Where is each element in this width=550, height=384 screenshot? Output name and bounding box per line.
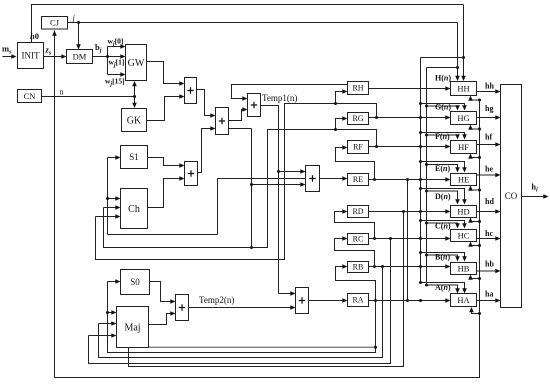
wire G net: RG out up-over to RH.in and down to Ch.in3 bbox=[96, 89, 379, 259]
wire j drop into HH top bbox=[455, 23, 460, 82]
svg-text:C(n): C(n) bbox=[435, 222, 451, 231]
svg-text:hh: hh bbox=[485, 81, 494, 90]
register RB bbox=[348, 262, 369, 273]
wire A7 out to RA bbox=[309, 298, 348, 303]
svg-text:RC: RC bbox=[353, 235, 364, 244]
adder A2 (+n) bbox=[216, 108, 229, 135]
svg-text:RA: RA bbox=[352, 296, 363, 305]
svg-text:A(n): A(n) bbox=[435, 283, 451, 292]
register RG bbox=[348, 113, 369, 125]
svg-text:B(n): B(n) bbox=[435, 253, 450, 262]
wire ladder RA to RB.in bbox=[336, 264, 378, 302]
wire HE out to CO (he) bbox=[477, 173, 501, 178]
wire Temp2 line A6 to A7 bbox=[189, 305, 296, 310]
svg-text:HH: HH bbox=[457, 83, 469, 93]
adder A6 (S0+Maj) bbox=[176, 295, 189, 321]
svg-text:H(n): H(n) bbox=[435, 74, 451, 83]
register RC bbox=[348, 234, 369, 245]
svg-text:RE: RE bbox=[353, 175, 363, 184]
wire zs INIT to DM bbox=[44, 54, 67, 59]
wire RD out to HD bbox=[369, 209, 451, 214]
svg-text:DM: DM bbox=[73, 51, 87, 61]
wire ladder RE to RF.in bbox=[336, 145, 377, 181]
svg-text:n: n bbox=[60, 88, 64, 97]
svg-text:CO: CO bbox=[505, 191, 518, 201]
wire A net: RA down to S0/Maj.in1 bbox=[106, 279, 376, 352]
wire vertical link RE row to RA row bbox=[406, 178, 409, 302]
adder A1 (GW+GK) bbox=[185, 78, 197, 104]
wire taps into HC top bbox=[419, 219, 467, 229]
wire feedback into HG bottom bbox=[468, 125, 481, 131]
wire RH left to A3 (H into Temp1) bbox=[232, 85, 348, 101]
wire Maj side line bbox=[149, 346, 378, 349]
register RH bbox=[348, 82, 369, 95]
register HC bbox=[451, 230, 477, 242]
wire ladder RB to RC.in bbox=[335, 236, 377, 268]
svg-text:hb: hb bbox=[485, 259, 494, 268]
wire link busB top bbox=[427, 67, 458, 69]
wire HA out to CO (ha) bbox=[477, 298, 501, 303]
wire C net: RC down to Maj.in3 bbox=[89, 239, 391, 364]
wire A4 out to A2 bbox=[198, 126, 216, 172]
svg-text:Maj: Maj bbox=[124, 322, 140, 333]
block CJ (round counter) bbox=[42, 17, 68, 30]
wire HH out to CO (hh) bbox=[477, 89, 501, 94]
adder A3 (Temp1 adder) bbox=[248, 94, 261, 117]
wire bj DM to GW bus bbox=[93, 44, 126, 77]
wire ladder RC to RD.in bbox=[335, 209, 377, 240]
register RE bbox=[348, 174, 369, 186]
wire GK out to A1 bbox=[147, 94, 185, 120]
register HG bbox=[451, 112, 477, 125]
svg-text:hc: hc bbox=[485, 229, 493, 238]
svg-text:F(n): F(n) bbox=[435, 132, 450, 141]
svg-text:E(n): E(n) bbox=[435, 164, 450, 173]
svg-text:S0: S0 bbox=[130, 277, 140, 287]
wire h0 drop into HH top bbox=[461, 5, 466, 82]
block S0 bbox=[121, 270, 150, 295]
register HD bbox=[451, 206, 477, 218]
svg-text:hd: hd bbox=[485, 197, 494, 206]
wire RF out to HF bbox=[369, 144, 451, 149]
wire Ch out to A4 bbox=[148, 176, 185, 207]
wire feedback into HD bottom bbox=[468, 218, 481, 224]
svg-text:Ch: Ch bbox=[128, 204, 140, 215]
wire A5 output line to RE and E-bus stub bbox=[218, 176, 348, 234]
svg-text:h0: h0 bbox=[30, 31, 39, 41]
wire CO output hi bbox=[522, 194, 549, 199]
svg-text:GK: GK bbox=[127, 115, 142, 126]
block S1 bbox=[121, 146, 148, 169]
svg-text:HE: HE bbox=[458, 174, 469, 184]
wire A2 right link down to A5.in2 bbox=[229, 129, 306, 250]
wire RC out to HC bbox=[369, 236, 451, 241]
svg-text:hf: hf bbox=[485, 132, 492, 141]
block GK (round constant) bbox=[122, 109, 147, 132]
block CN bbox=[18, 90, 42, 103]
svg-text:CN: CN bbox=[24, 91, 36, 101]
svg-text:RD: RD bbox=[352, 207, 363, 216]
wire taps into HA top bbox=[419, 281, 467, 294]
register RA bbox=[348, 294, 369, 307]
svg-text:Temp1(n): Temp1(n) bbox=[262, 93, 297, 103]
wire j drop into DM bbox=[76, 23, 81, 50]
wire Maj out to A6 bbox=[149, 311, 176, 324]
wire feedback into HC bottom bbox=[468, 242, 481, 248]
wire CJ bottom loop to HA/bottom bbox=[52, 31, 479, 378]
svg-text:CJ: CJ bbox=[50, 18, 60, 28]
wire taps into HD top bbox=[419, 187, 467, 205]
wire busB vertical bbox=[426, 68, 428, 286]
wire HD out to CO (hd) bbox=[477, 209, 501, 214]
wire RB out to HB bbox=[369, 264, 451, 269]
adder A5 (E adder) bbox=[306, 166, 320, 192]
svg-text:RH: RH bbox=[352, 84, 363, 93]
adder A7 (Temp1+Temp2) bbox=[296, 288, 309, 314]
wire RH out to HH bbox=[369, 86, 451, 91]
svg-text:ha: ha bbox=[485, 289, 493, 298]
wire HF out to CO (hf) bbox=[477, 142, 501, 147]
block CO (output combiner) bbox=[501, 85, 522, 308]
register HA bbox=[451, 294, 477, 307]
wire busA vertical bbox=[420, 58, 422, 283]
wire taps into HB top bbox=[419, 251, 467, 262]
register HH bbox=[451, 82, 477, 96]
wire taps into HF top bbox=[419, 131, 467, 140]
svg-text:hg: hg bbox=[485, 104, 493, 113]
wire feedback into HA bottom bbox=[469, 307, 481, 315]
svg-text:HG: HG bbox=[457, 113, 469, 123]
wire HC out to CO (hc) bbox=[477, 236, 501, 241]
wire S1 out to A4 bbox=[148, 158, 185, 168]
wire A2 out to A3 bbox=[229, 107, 248, 120]
wire S0 out to A6 bbox=[150, 282, 176, 304]
wire taps into HE top bbox=[419, 160, 467, 173]
wire feedback into HH bottom bbox=[468, 96, 481, 102]
wire B net: RB down to Maj.in2 bbox=[99, 267, 383, 358]
block GW (message schedule) bbox=[126, 45, 147, 81]
register RF bbox=[348, 141, 369, 154]
adder A4 (S1+Ch) bbox=[185, 162, 198, 186]
wire HG out to CO (hg) bbox=[477, 115, 501, 120]
wire A1 out to A2 bbox=[197, 90, 216, 118]
block Maj bbox=[117, 307, 149, 348]
svg-text:RG: RG bbox=[352, 114, 363, 123]
svg-text:INIT: INIT bbox=[22, 51, 40, 61]
svg-text:Temp2(n): Temp2(n) bbox=[199, 295, 234, 305]
svg-text:he: he bbox=[485, 165, 493, 174]
register HF bbox=[451, 141, 477, 154]
wire HB out to CO (hb) bbox=[477, 269, 501, 274]
wire n from CN to GW/GK bbox=[42, 81, 137, 108]
wire feedback into HE bottom bbox=[468, 186, 481, 192]
block Ch bbox=[121, 189, 148, 229]
wire F net: RF out up-over to RG.in and down to Ch.in2 bbox=[104, 116, 379, 247]
svg-text:RF: RF bbox=[353, 143, 363, 152]
wire h0 feedback (top) bbox=[32, 5, 464, 43]
register HE bbox=[451, 174, 477, 186]
wire RE out to HE bbox=[369, 177, 451, 182]
wire taps into HG top bbox=[419, 102, 467, 111]
svg-text:HD: HD bbox=[457, 206, 469, 216]
svg-text:HB: HB bbox=[458, 263, 470, 273]
svg-text:RB: RB bbox=[353, 263, 364, 272]
wire ms input arrow bbox=[3, 54, 17, 59]
block DM bbox=[67, 50, 93, 64]
svg-text:HC: HC bbox=[458, 230, 470, 240]
wire GW out to A1 bbox=[147, 62, 185, 86]
register HB bbox=[451, 263, 477, 275]
wire RA out to HA bbox=[369, 298, 451, 303]
wire feedback into HB bottom bbox=[468, 275, 481, 281]
wire E bus to S1 and Ch.in1 bbox=[106, 155, 218, 234]
svg-text:G(n): G(n) bbox=[435, 103, 451, 112]
svg-text:S1: S1 bbox=[129, 152, 139, 162]
wire RG out to HG bbox=[369, 115, 451, 120]
svg-text:GW: GW bbox=[128, 58, 145, 69]
svg-text:D(n): D(n) bbox=[435, 192, 451, 201]
wire D net: RD down around to Maj bottom bbox=[129, 212, 404, 367]
wire j from CJ to HH column bbox=[68, 21, 458, 24]
wire Temp1 down to A5.in1 and A7.in1 bbox=[261, 106, 306, 296]
register RD bbox=[348, 206, 369, 218]
svg-text:HF: HF bbox=[458, 142, 469, 152]
wire feedback into HF bottom bbox=[468, 154, 481, 160]
block INIT bbox=[18, 43, 44, 69]
svg-text:HA: HA bbox=[457, 295, 470, 305]
wire link busA top bbox=[421, 57, 464, 59]
